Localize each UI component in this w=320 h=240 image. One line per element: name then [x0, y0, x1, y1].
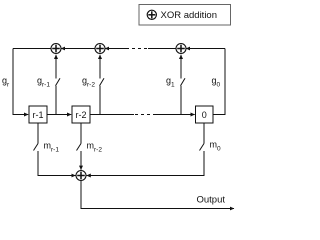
wire m_r-2 tap lower (arrow down into bottom XOR): [80, 151, 82, 170]
switch m_0 blade: [200, 144, 205, 151]
legend box: [139, 5, 231, 26]
wire top bus segment C solid part right: [148, 48, 176, 50]
register r-2 box: [72, 106, 90, 123]
wire m_r-1 tap lower to bottom XOR (arrow right): [38, 151, 76, 176]
register r-1 box: [29, 106, 47, 123]
register 0 box: [196, 106, 214, 123]
switch g_r-1 blade: [56, 78, 61, 86]
legend XOR symbol: [147, 10, 156, 19]
svg-text:0: 0: [202, 110, 207, 120]
svg-text:g0: g0: [212, 76, 221, 89]
wire switch branch g_r-1 lower: [55, 86, 57, 115]
wire top bus segment B (XOR2 left to XOR3 right, arrow into XOR3): [61, 48, 95, 50]
svg-text:mr-1: mr-1: [44, 141, 60, 154]
svg-text:Output: Output: [197, 195, 226, 206]
svg-text:r-1: r-1: [33, 110, 44, 120]
op XOR4 gate (bottom output adder): [76, 171, 86, 181]
svg-text:gr-2: gr-2: [82, 76, 95, 89]
wire output from XOR4 down and right (arrow): [81, 181, 234, 209]
wire r-2 to register 0 solid right (arrow into 0): [153, 114, 195, 116]
switch g_1 blade: [181, 78, 186, 86]
wire switch branch g_1 upper: [180, 55, 182, 79]
wire m_0 tap lower to bottom XOR (arrow left): [87, 151, 204, 176]
svg-text:XOR addition: XOR addition: [161, 10, 218, 21]
svg-text:r-2: r-2: [76, 110, 87, 120]
svg-text:g1: g1: [166, 76, 175, 89]
wire top bus segment D (right corner to XOR1, arrow into XOR1): [186, 48, 225, 50]
wire top bus segment C solid part left (arrow into XOR2): [105, 48, 129, 50]
svg-text:mr-2: mr-2: [87, 141, 103, 154]
switch m_r-2 blade: [77, 144, 82, 151]
wire m_r-2 tap upper: [80, 123, 82, 144]
wire r-2 to register 0 solid left: [90, 114, 134, 116]
op XOR1 gate (top right, x=181): [176, 44, 186, 54]
op XOR2 gate (top middle, x=100): [95, 44, 105, 54]
wire r-1 to r-2 (arrow into r-2): [47, 114, 71, 116]
wire feedback register 0 to top bus: [213, 49, 225, 115]
wire switch branch g_r-2 lower: [99, 86, 101, 115]
wire top bus segment A (corner to XOR3 left): [13, 48, 51, 50]
svg-text:gr: gr: [2, 76, 10, 89]
wire r-2 to register 0 dashed: [135, 114, 153, 116]
wire m_0 tap upper: [203, 123, 205, 144]
wire top bus segment C dashed part: [129, 48, 147, 50]
wire m_r-1 tap upper: [37, 123, 39, 144]
svg-text:m0: m0: [210, 140, 222, 153]
wire switch branch g_r-2 upper: [99, 55, 101, 79]
wire left feedback drop g_r: [13, 49, 28, 115]
switch m_r-1 blade: [34, 144, 39, 151]
svg-text:gr-1: gr-1: [37, 76, 50, 89]
op XOR3 gate (top left, x=56): [51, 44, 61, 54]
switch g_r-2 blade: [100, 78, 105, 86]
wire switch branch g_r-1 upper: [55, 55, 57, 79]
wire switch branch g_1 lower: [180, 86, 182, 115]
